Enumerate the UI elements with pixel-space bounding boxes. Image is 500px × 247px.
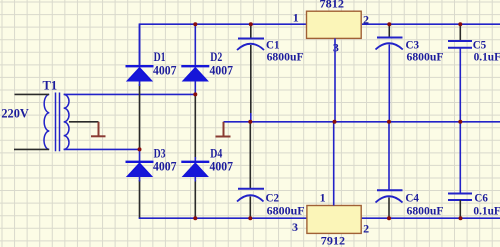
- capacitor C3: [376, 24, 403, 122]
- svg-text:4007: 4007: [210, 64, 234, 78]
- node C2 on -V rail: [248, 216, 252, 220]
- svg-text:C6: C6: [474, 190, 488, 204]
- node C1 on +V rail: [249, 22, 253, 26]
- node C5 on +V rail: [458, 22, 462, 26]
- svg-text:4007: 4007: [153, 159, 177, 173]
- svg-text:T1: T1: [43, 79, 58, 93]
- svg-text:D3: D3: [154, 146, 166, 160]
- wire primary bottom lead: [14, 148, 49, 150]
- capacitor C5: [448, 24, 472, 122]
- wire secondary top to bridge: [64, 93, 196, 95]
- wire 7912 pin1 to 0V rail: [333, 122, 335, 206]
- node C2 on 0V rail: [248, 120, 252, 124]
- wire 0V middle rail: [224, 121, 500, 123]
- wire secondary bottom to bridge: [64, 148, 140, 150]
- diode D3: [126, 149, 154, 181]
- node D2 cathode on +V rail: [193, 22, 197, 26]
- svg-text:4007: 4007: [210, 159, 234, 173]
- svg-text:0.1uF: 0.1uF: [474, 50, 500, 64]
- svg-text:2: 2: [363, 12, 369, 26]
- wire bridge right vertical: [194, 95, 196, 218]
- wire primary top lead: [15, 93, 50, 95]
- svg-text:C2: C2: [266, 190, 280, 204]
- svg-text:6800uF: 6800uF: [267, 50, 304, 64]
- node C4 on -V rail: [387, 216, 391, 220]
- capacitor C6: [448, 122, 472, 218]
- svg-text:2: 2: [363, 222, 369, 236]
- svg-text:D4: D4: [210, 146, 223, 160]
- diode D2: [181, 24, 209, 95]
- capacitor C1: [237, 24, 264, 122]
- svg-text:C4: C4: [405, 190, 419, 204]
- node C6 on 0V rail: [458, 120, 462, 124]
- svg-text:1: 1: [320, 190, 326, 204]
- diode D4: [181, 157, 209, 182]
- svg-text:6800uF: 6800uF: [407, 50, 444, 64]
- svg-text:D1: D1: [154, 50, 166, 64]
- svg-text:4007: 4007: [153, 64, 177, 78]
- transformer T1: [44, 93, 69, 152]
- capacitor C2: [237, 122, 264, 218]
- wire center tap: [69, 121, 99, 123]
- svg-text:6800uF: 6800uF: [267, 203, 305, 217]
- wire bridge left vertical: [139, 84, 141, 218]
- ground at 0V rail: [216, 122, 231, 137]
- node C6 on -V rail: [459, 216, 463, 220]
- svg-text:6800uF: 6800uF: [407, 203, 444, 217]
- node C3 on +V rail: [387, 22, 391, 26]
- node regulators on 0V rail: [333, 120, 337, 124]
- regulator U1 7812: [307, 11, 362, 38]
- diode D1: [126, 24, 154, 86]
- svg-text:D2: D2: [210, 50, 222, 64]
- svg-text:7812: 7812: [320, 0, 345, 11]
- svg-text:3: 3: [292, 220, 298, 234]
- regulator U2 7912: [307, 206, 361, 234]
- svg-text:0.1uF: 0.1uF: [473, 203, 500, 217]
- node D4 anode on -V rail: [193, 216, 197, 220]
- svg-text:220V: 220V: [1, 107, 28, 121]
- node secondary bottom AC junction: [138, 147, 142, 151]
- svg-text:7912: 7912: [321, 234, 345, 247]
- wire -V bottom rail: [140, 217, 500, 218]
- svg-text:1: 1: [293, 10, 299, 24]
- svg-text:3: 3: [333, 41, 339, 55]
- node C4 on 0V rail: [387, 120, 391, 124]
- node secondary top AC junction: [193, 92, 197, 96]
- wire 7812 pin3 to 0V rail: [334, 38, 336, 121]
- ground at center tap: [91, 122, 106, 137]
- wire +V top rail: [140, 24, 500, 66]
- capacitor C4: [376, 122, 403, 218]
